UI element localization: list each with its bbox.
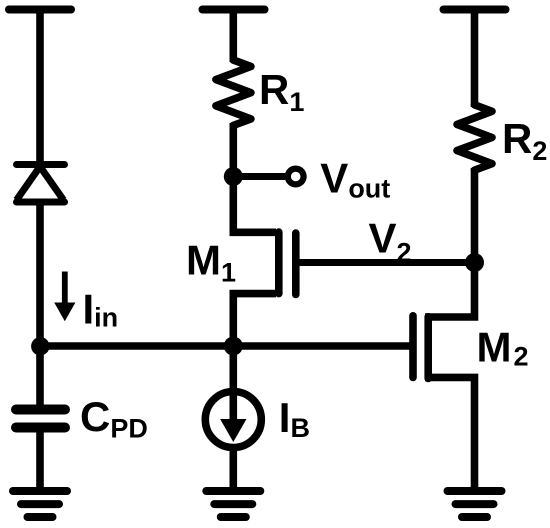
current source IB (205, 392, 261, 448)
wire (gate of M1 to V2 node) (296, 259, 475, 266)
wire (471, 168, 479, 266)
node D (V2 node) (465, 253, 484, 272)
wire (main horizontal) (40, 342, 413, 350)
power rail VDD (middle) (203, 6, 265, 14)
wire to output terminal (233, 173, 285, 180)
resistor R2 (457, 105, 492, 170)
transistor M2 (413, 263, 475, 492)
ground (left) (13, 491, 67, 517)
ground (right) (448, 491, 502, 517)
node A (input node) (31, 337, 49, 355)
ground (middle) (206, 491, 260, 517)
power rail VDD (left) (9, 6, 71, 14)
wire (471, 10, 479, 108)
wire (230, 448, 238, 492)
wire (230, 10, 238, 63)
wire (36, 427, 44, 491)
wire (230, 123, 238, 180)
power rail VDD (right) (444, 6, 506, 14)
resistor R1 (216, 60, 251, 125)
current arrow Iin (54, 272, 75, 322)
node C (main input row node) (224, 337, 243, 356)
photodiode D1 (17, 165, 65, 203)
wire (36, 346, 44, 406)
transistor M1 (233, 172, 295, 350)
wire (230, 346, 238, 393)
capacitor CPD (16, 410, 65, 428)
node B (Vout node) (224, 167, 243, 186)
terminal Vout (288, 169, 304, 185)
wire (36, 10, 44, 165)
wire (36, 200, 44, 350)
